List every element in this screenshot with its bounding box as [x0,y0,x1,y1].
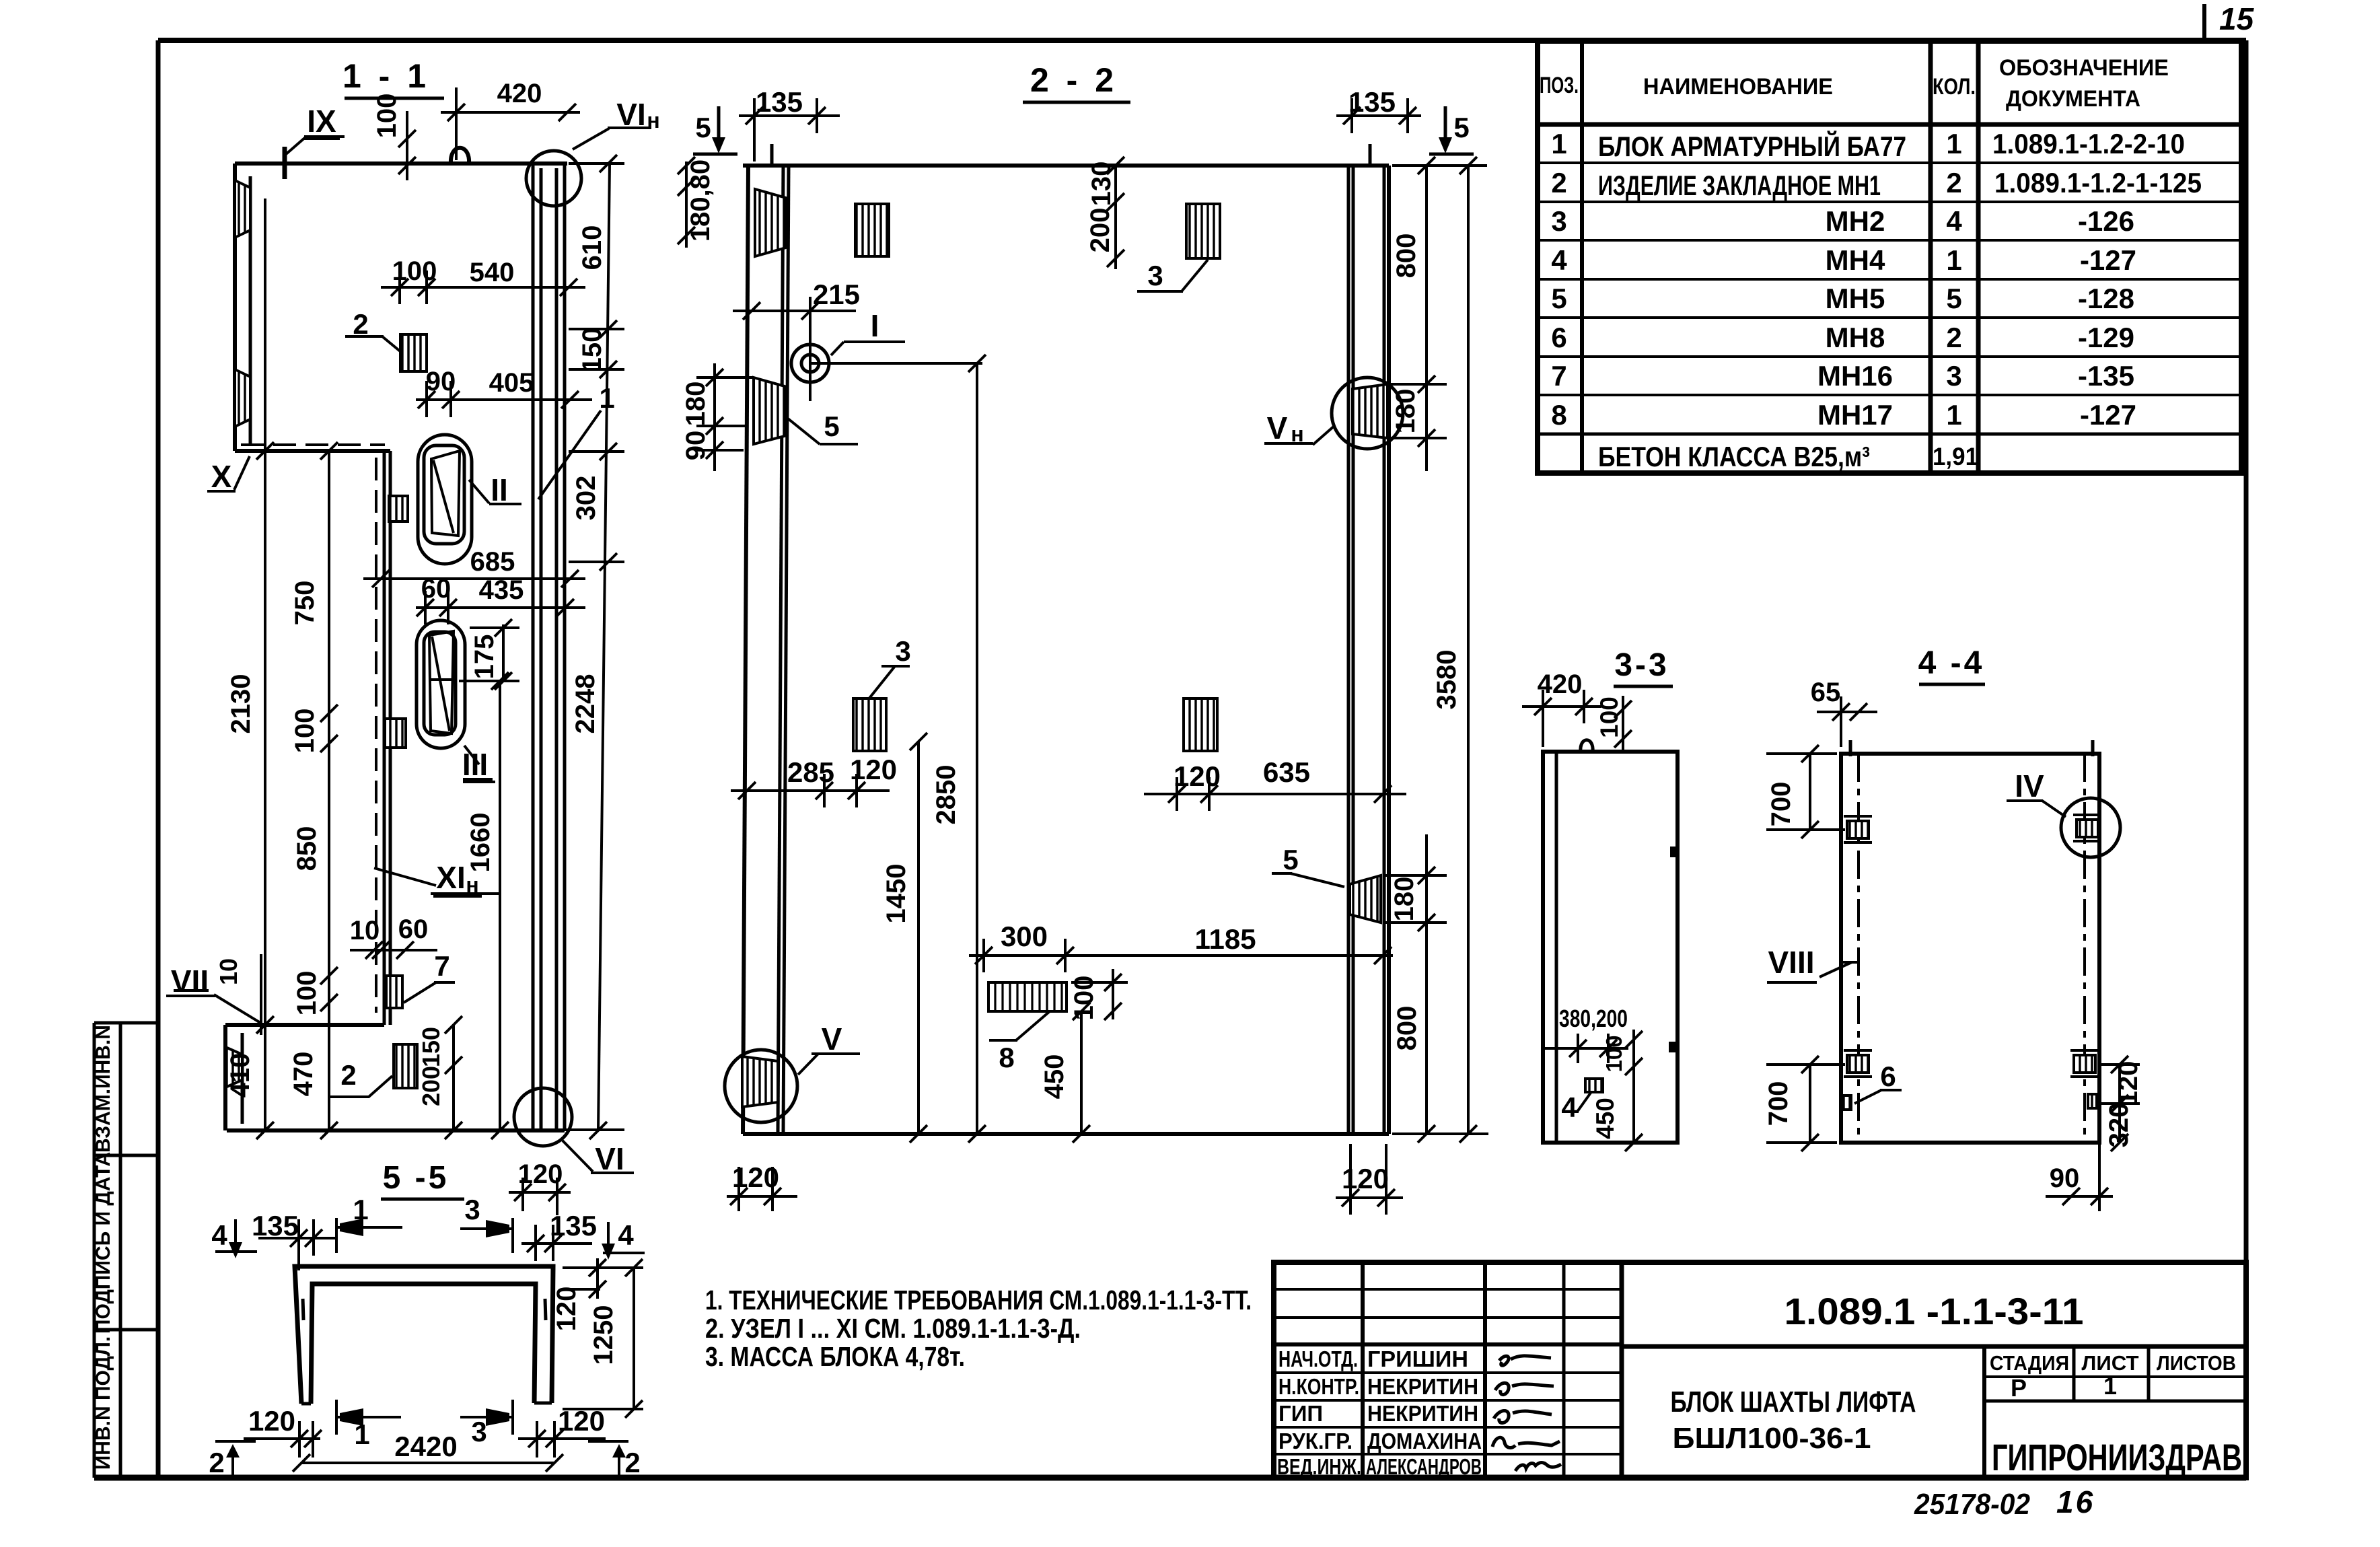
svg-text:130: 130 [1087,161,1116,207]
svg-text:4: 4 [1551,244,1567,276]
svg-text:3: 3 [895,635,910,667]
svg-text:7: 7 [1551,360,1566,392]
svg-text:X: X [211,459,232,494]
svg-text:120: 120 [1174,760,1221,792]
svg-text:3: 3 [1551,205,1566,237]
svg-text:1: 1 [353,1194,368,1225]
svg-text:2: 2 [1946,322,1961,353]
svg-text:1450: 1450 [881,864,911,924]
svg-text:ГРИШИН: ГРИШИН [1367,1346,1468,1371]
svg-text:10: 10 [215,958,242,985]
svg-text:ВЕД.ИНЖ.: ВЕД.ИНЖ. [1277,1454,1361,1479]
svg-text:ИНВ.N ПОДЛ.: ИНВ.N ПОДЛ. [92,1336,114,1470]
svg-text:2248: 2248 [571,674,600,734]
svg-text:450: 450 [1040,1054,1069,1100]
svg-text:800: 800 [1392,233,1421,279]
svg-text:120: 120 [2114,1061,2143,1106]
svg-text:1.089.1-1.2-2-10: 1.089.1-1.2-2-10 [1992,128,2185,159]
svg-text:150: 150 [417,1027,445,1067]
svg-text:16: 16 [2056,1484,2095,1519]
svg-text:3: 3 [464,1194,480,1225]
svg-text:120: 120 [518,1159,563,1189]
svg-text:БЕТОН КЛАССА В25,м³: БЕТОН КЛАССА В25,м³ [1598,441,1870,472]
svg-text:ЛИСТОВ: ЛИСТОВ [2157,1351,2236,1375]
svg-text:135: 135 [756,86,803,118]
svg-text:III: III [462,747,488,782]
svg-text:5: 5 [1946,283,1961,314]
svg-text:МН17: МН17 [1817,399,1893,431]
svg-text:100: 100 [290,709,320,754]
svg-text:302: 302 [571,476,601,521]
svg-text:МН2: МН2 [1826,205,1885,237]
svg-text:ДОМАХИНА: ДОМАХИНА [1367,1429,1482,1453]
svg-text:5: 5 [695,112,711,143]
svg-text:320: 320 [2104,1103,2134,1148]
svg-text:1 - 1: 1 - 1 [342,57,430,95]
svg-text:-127: -127 [2080,399,2136,431]
svg-text:215: 215 [813,279,860,310]
svg-text:1: 1 [1946,244,1961,276]
svg-text:ПОДПИСЬ И ДАТА: ПОДПИСЬ И ДАТА [92,1152,114,1334]
svg-text:800: 800 [1392,1006,1422,1051]
svg-text:3-3: 3-3 [1614,647,1669,683]
svg-text:XI: XI [436,860,465,895]
svg-text:200: 200 [417,1066,445,1106]
svg-text:540: 540 [470,258,515,287]
svg-text:ПОЗ.: ПОЗ. [1540,73,1579,98]
svg-text:4: 4 [618,1219,634,1251]
svg-text:3: 3 [1147,260,1163,291]
svg-text:285: 285 [787,756,834,788]
svg-text:КОЛ.: КОЛ. [1933,74,1976,100]
svg-text:2. УЗЕЛ I ... XI СМ. 1.089.1-1: 2. УЗЕЛ I ... XI СМ. 1.089.1-1.1-3-Д. [705,1313,1081,1344]
svg-text:685: 685 [470,547,515,577]
svg-text:90: 90 [681,431,711,461]
svg-text:90: 90 [426,367,456,396]
svg-text:ИЗДЕЛИЕ ЗАКЛАДНОЕ МН1: ИЗДЕЛИЕ ЗАКЛАДНОЕ МН1 [1598,170,1881,201]
svg-text:VI: VI [616,97,645,132]
svg-text:100: 100 [1601,1035,1626,1072]
svg-text:150: 150 [577,328,607,373]
svg-text:635: 635 [1263,756,1310,788]
svg-text:120: 120 [552,1287,581,1332]
svg-text:-129: -129 [2078,322,2134,353]
svg-text:БЛОК ШАХТЫ ЛИФТА: БЛОК ШАХТЫ ЛИФТА [1671,1386,1916,1418]
svg-text:4: 4 [1946,205,1962,237]
svg-text:IV: IV [2015,768,2044,803]
svg-text:НАЧ.ОТД.: НАЧ.ОТД. [1278,1346,1358,1371]
svg-text:ОБОЗНАЧЕНИЕ: ОБОЗНАЧЕНИЕ [1999,55,2169,81]
svg-text:100: 100 [1069,976,1099,1021]
svg-text:2: 2 [340,1059,356,1091]
svg-text:1: 1 [599,382,614,414]
svg-text:200: 200 [1085,208,1115,253]
svg-text:V: V [1267,410,1288,445]
svg-text:1: 1 [354,1418,369,1450]
svg-text:100: 100 [1595,696,1623,738]
svg-text:380,200: 380,200 [1559,1005,1628,1032]
svg-text:2: 2 [624,1447,640,1478]
svg-text:I: I [871,308,879,343]
svg-text:8: 8 [1551,399,1566,431]
svg-text:470: 470 [289,1052,318,1097]
svg-text:1: 1 [2103,1372,2117,1400]
svg-text:25178-02: 25178-02 [1914,1488,2030,1521]
svg-text:РУК.ГР.: РУК.ГР. [1278,1429,1353,1453]
svg-text:АЛЕКСАНДРОВ: АЛЕКСАНДРОВ [1366,1454,1482,1479]
svg-text:2: 2 [1946,167,1961,199]
svg-text:IX: IX [307,104,336,139]
svg-text:VI: VI [595,1141,624,1176]
svg-text:2850: 2850 [931,765,961,825]
svg-text:850: 850 [292,826,322,871]
svg-text:100: 100 [292,971,322,1016]
svg-text:НЕКРИТИН: НЕКРИТИН [1367,1401,1478,1426]
svg-text:ЛИСТ: ЛИСТ [2082,1351,2139,1375]
svg-text:3. МАССА БЛОКА 4,78т.: 3. МАССА БЛОКА 4,78т. [705,1341,965,1372]
svg-text:90: 90 [2050,1163,2080,1193]
svg-text:ГИП: ГИП [1278,1401,1323,1426]
svg-text:2: 2 [353,308,368,340]
svg-text:МН5: МН5 [1826,283,1885,314]
svg-text:15: 15 [2219,1,2255,36]
svg-text:10: 10 [350,916,380,945]
svg-text:ДОКУМЕНТА: ДОКУМЕНТА [2006,86,2140,112]
svg-text:V: V [822,1021,842,1056]
svg-text:ГИПРОНИИЗДРАВ: ГИПРОНИИЗДРАВ [1992,1436,2242,1478]
svg-text:2: 2 [1551,167,1566,199]
svg-text:420: 420 [497,79,542,108]
svg-text:МН4: МН4 [1826,244,1885,276]
svg-text:4 -4: 4 -4 [1918,645,1985,681]
svg-text:700: 700 [1764,1081,1793,1126]
svg-text:1: 1 [1946,128,1961,159]
svg-text:-127: -127 [2080,244,2136,276]
svg-text:65: 65 [1811,678,1841,707]
svg-text:6: 6 [1551,322,1566,353]
svg-text:180: 180 [681,382,711,427]
svg-text:2: 2 [209,1447,224,1478]
svg-text:120: 120 [248,1405,295,1437]
svg-text:1185: 1185 [1194,923,1256,955]
svg-text:405: 405 [489,368,534,398]
svg-text:120: 120 [732,1161,779,1193]
svg-text:1250: 1250 [589,1305,618,1365]
svg-text:435: 435 [479,575,524,605]
svg-text:5: 5 [824,410,839,442]
svg-text:135: 135 [550,1210,597,1242]
svg-text:180: 180 [1390,877,1419,922]
svg-text:4: 4 [1561,1091,1577,1123]
svg-text:1,91: 1,91 [1933,443,1978,470]
svg-text:II: II [491,472,508,507]
svg-text:МН16: МН16 [1817,360,1893,392]
svg-text:180,80: 180,80 [686,159,715,242]
svg-text:3: 3 [471,1416,486,1447]
svg-text:60: 60 [398,914,429,944]
svg-text:1.089.1 -1.1-3-11: 1.089.1 -1.1-3-11 [1784,1290,2084,1332]
svg-text:450: 450 [1591,1098,1619,1139]
svg-text:135: 135 [1348,86,1396,118]
svg-text:120: 120 [558,1405,605,1437]
svg-text:НАИМЕНОВАНИЕ: НАИМЕНОВАНИЕ [1643,74,1833,100]
svg-text:МН8: МН8 [1826,322,1885,353]
svg-text:5: 5 [1283,844,1298,875]
svg-text:180: 180 [1391,389,1420,434]
svg-text:120: 120 [1342,1163,1389,1194]
svg-text:Н.КОНТР.: Н.КОНТР. [1278,1374,1359,1399]
svg-text:8: 8 [999,1042,1014,1073]
svg-text:700: 700 [1766,782,1796,827]
svg-text:3: 3 [1946,360,1961,392]
svg-text:1: 1 [1551,128,1566,159]
svg-text:2420: 2420 [394,1431,457,1462]
svg-text:3580: 3580 [1432,650,1462,710]
svg-text:4: 4 [211,1219,227,1251]
svg-text:6: 6 [1880,1060,1896,1092]
svg-text:175: 175 [470,635,499,680]
svg-text:100: 100 [372,94,402,139]
svg-text:120: 120 [850,754,897,785]
svg-text:750: 750 [290,581,320,626]
svg-text:7: 7 [434,950,449,982]
svg-text:VIII: VIII [1768,945,1814,980]
svg-text:610: 610 [577,225,607,271]
svg-text:1660: 1660 [466,813,495,873]
svg-text:135: 135 [252,1210,299,1242]
svg-text:5: 5 [1453,112,1469,143]
svg-text:НЕКРИТИН: НЕКРИТИН [1367,1374,1478,1399]
svg-text:5 -5: 5 -5 [383,1160,449,1196]
svg-text:VII: VII [171,964,209,999]
svg-text:-135: -135 [2078,360,2134,392]
svg-text:1. ТЕХНИЧЕСКИЕ ТРЕБОВАНИЯ СМ.1: 1. ТЕХНИЧЕСКИЕ ТРЕБОВАНИЯ СМ.1.089.1-1.1… [705,1285,1252,1316]
svg-text:410: 410 [225,1053,255,1098]
svg-text:ВЗАМ.ИНВ.N: ВЗАМ.ИНВ.N [92,1025,114,1153]
svg-text:СТАДИЯ: СТАДИЯ [1990,1351,2069,1375]
svg-text:1.089.1-1.2-1-125: 1.089.1-1.2-1-125 [1994,167,2202,199]
svg-text:БЛОК АРМАТУРНЫЙ БА77: БЛОК АРМАТУРНЫЙ БА77 [1598,130,1906,162]
svg-text:100: 100 [392,256,437,286]
svg-text:н: н [647,108,659,133]
svg-text:БШЛ100-36-1: БШЛ100-36-1 [1673,1422,1871,1455]
svg-text:300: 300 [1001,921,1048,952]
svg-text:420: 420 [1538,670,1583,699]
svg-text:-126: -126 [2078,205,2134,237]
svg-text:-128: -128 [2078,283,2134,314]
svg-text:2130: 2130 [226,674,256,734]
svg-text:2 - 2: 2 - 2 [1030,61,1118,99]
svg-text:60: 60 [421,574,452,604]
svg-text:Р: Р [2011,1374,2027,1402]
svg-text:5: 5 [1551,283,1566,314]
svg-text:1: 1 [1946,399,1961,431]
svg-text:н: н [466,873,478,897]
